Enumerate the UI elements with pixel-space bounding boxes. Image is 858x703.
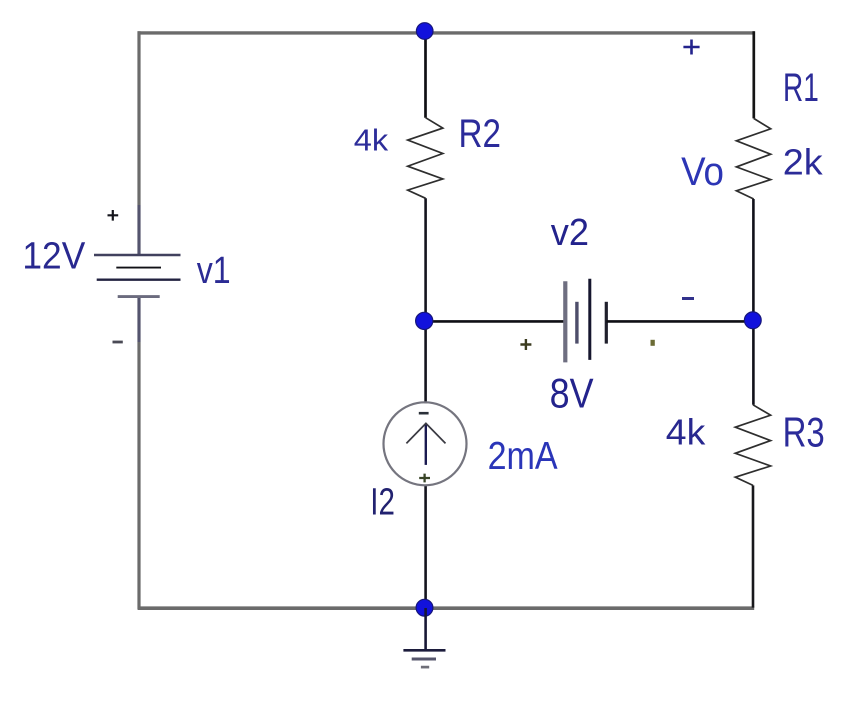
svg-text:12V: 12V [22, 235, 85, 277]
node top junction dot [416, 23, 433, 40]
battery v2 plate tall dark [588, 279, 591, 360]
current source I2 arrow shaft [425, 424, 427, 465]
current source I2 circle [384, 402, 467, 485]
resistor R3 zigzag [735, 405, 770, 486]
battery v2 plate short right [605, 302, 608, 344]
svg-text:8V: 8V [550, 371, 594, 417]
wire mid column upper (top node to R2) [424, 31, 427, 118]
I2 plus mark [419, 474, 430, 483]
svg-text:v1: v1 [197, 250, 231, 292]
ground stem [424, 608, 427, 650]
wire mid horizontal left (mid node to v2) [424, 320, 565, 323]
battery v1 plate long top [94, 254, 181, 256]
resistor R2 zigzag [408, 118, 443, 199]
I2 minus mark [419, 412, 429, 415]
wire left rail lower (from v1 -) [137, 297, 140, 609]
svg-text:R1: R1 [783, 66, 819, 110]
wire mid column (current source bottom to bottom node) [424, 485, 427, 608]
ground bar 1 [403, 649, 445, 652]
svg-text:2mA: 2mA [488, 434, 559, 478]
plus polarity mark (Vo +) [683, 40, 699, 55]
v2 small tick mark [651, 340, 655, 346]
current source I2 arrow head [406, 423, 445, 443]
svg-text:R3: R3 [783, 409, 825, 456]
battery v1 plate short black [116, 267, 161, 269]
resistor R1 zigzag [736, 118, 770, 199]
wire right column lower (R3 to bottom rail) [752, 485, 755, 607]
ground bar 3 [421, 666, 429, 669]
v2 plus polarity mark [520, 339, 531, 350]
battery v2 plate tall gray [563, 281, 567, 362]
battery v1 plate short gray [118, 295, 160, 298]
wire right column mid (R1 to right node to R3) [752, 199, 755, 405]
wire mid horizontal right (v2 to right node) [606, 320, 753, 323]
wire right column upper (corner to R1) [752, 31, 755, 118]
v2 minus polarity mark [682, 297, 694, 300]
wire top rail [138, 31, 755, 34]
svg-text:v2: v2 [551, 210, 589, 253]
ground bar 2 [412, 658, 436, 661]
wire left rail near battery (slate) [138, 205, 141, 255]
svg-text:R2: R2 [459, 111, 501, 156]
svg-text:4k: 4k [666, 412, 706, 452]
svg-text:2k: 2k [783, 142, 823, 182]
v1 minus polarity mark [113, 341, 123, 344]
battery v1 plate long lower [97, 279, 181, 281]
wire bottom rail [138, 606, 755, 610]
node mid junction dot [416, 312, 433, 329]
v1 plus polarity mark [108, 210, 119, 221]
wire left rail upper (to v1 +) [137, 31, 140, 255]
wire mid column (R2 down to current source top) [424, 198, 427, 403]
node bottom junction dot [416, 599, 433, 616]
svg-text:I2: I2 [370, 481, 395, 523]
wire slate below battery [138, 297, 141, 342]
node right junction dot [744, 312, 761, 329]
svg-text:4k: 4k [354, 122, 388, 157]
battery v2 plate short left [575, 302, 578, 344]
svg-text:Vo: Vo [681, 149, 724, 194]
